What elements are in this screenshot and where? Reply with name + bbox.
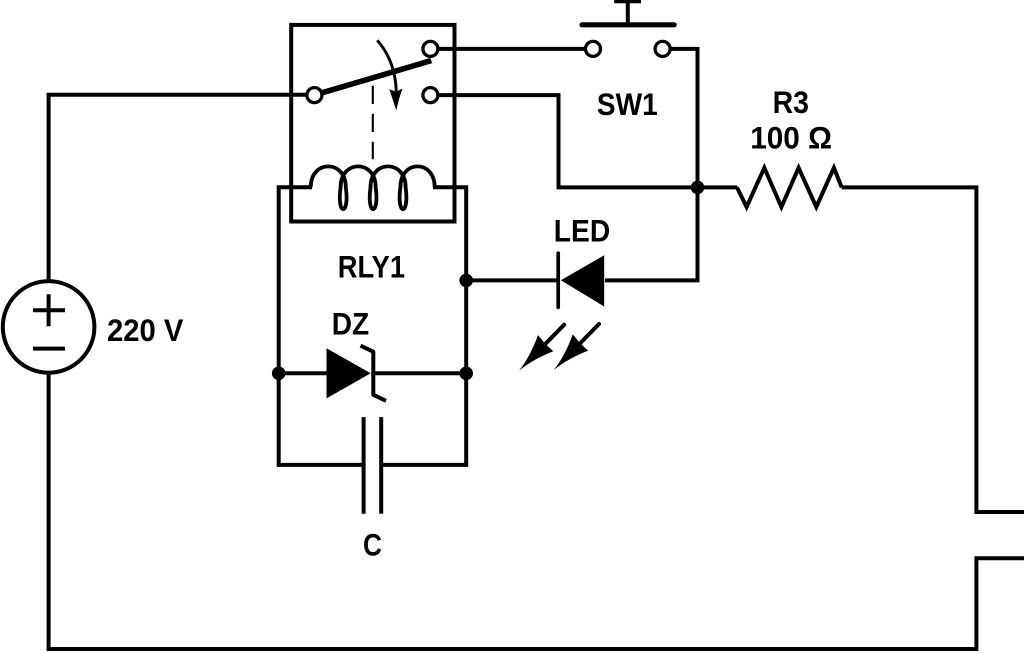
- wire DZ left: [279, 371, 327, 375]
- relay coil: [311, 166, 435, 209]
- LED cathode bar: [556, 253, 560, 307]
- relay actuation dashed link: [372, 86, 374, 160]
- LED: [466, 253, 604, 307]
- wire lower contact to node and R3: [438, 95, 738, 187]
- DZ body: [327, 348, 371, 398]
- svg-text:DZ: DZ: [332, 307, 370, 342]
- pushbutton SW1: [582, 1, 674, 57]
- wire lower right terminal: [47, 558, 1024, 649]
- DZ cathode bar with hooks: [361, 346, 387, 401]
- LED light arrow 1: [519, 325, 564, 371]
- capacitor C plate left: [362, 417, 366, 514]
- svg-text:220 V: 220 V: [107, 313, 184, 348]
- relay common contact: [307, 88, 322, 103]
- wire source top to relay common contact: [49, 95, 308, 283]
- relay RLY1 case: [291, 25, 454, 222]
- wire coil left lead down: [279, 187, 364, 465]
- svg-text:RLY1: RLY1: [338, 250, 405, 285]
- relay actuation arrow: [377, 40, 396, 92]
- wire coil right lead down: [381, 187, 466, 465]
- wire SW1 right down to LED: [605, 49, 698, 281]
- junction node SW1/R3: [691, 181, 705, 195]
- zener diode DZ: [279, 346, 467, 401]
- relay lower contact: [423, 88, 438, 103]
- junction DZ right: [459, 367, 473, 381]
- wire NO contact to SW1: [438, 47, 586, 51]
- wire LED left: [466, 278, 557, 282]
- svg-text:LED: LED: [554, 214, 610, 249]
- LED body: [561, 255, 604, 306]
- resistor R3: [737, 168, 842, 207]
- svg-text:SW1: SW1: [597, 87, 658, 122]
- wire R3 to upper right terminal: [842, 187, 1024, 512]
- relay armature lever: [323, 61, 431, 93]
- wire DZ right: [375, 371, 466, 375]
- LED light arrow 2: [554, 324, 599, 370]
- junction DZ left: [272, 367, 286, 381]
- svg-text:R3: R3: [773, 85, 809, 120]
- wire source bottom: [47, 371, 51, 649]
- svg-text:100 Ω: 100 Ω: [750, 121, 832, 156]
- junction LED node: [459, 274, 473, 288]
- svg-text:C: C: [363, 528, 382, 563]
- capacitor C plate right: [379, 417, 383, 514]
- relay NO contact: [423, 41, 438, 56]
- voltage source V1: [3, 281, 95, 373]
